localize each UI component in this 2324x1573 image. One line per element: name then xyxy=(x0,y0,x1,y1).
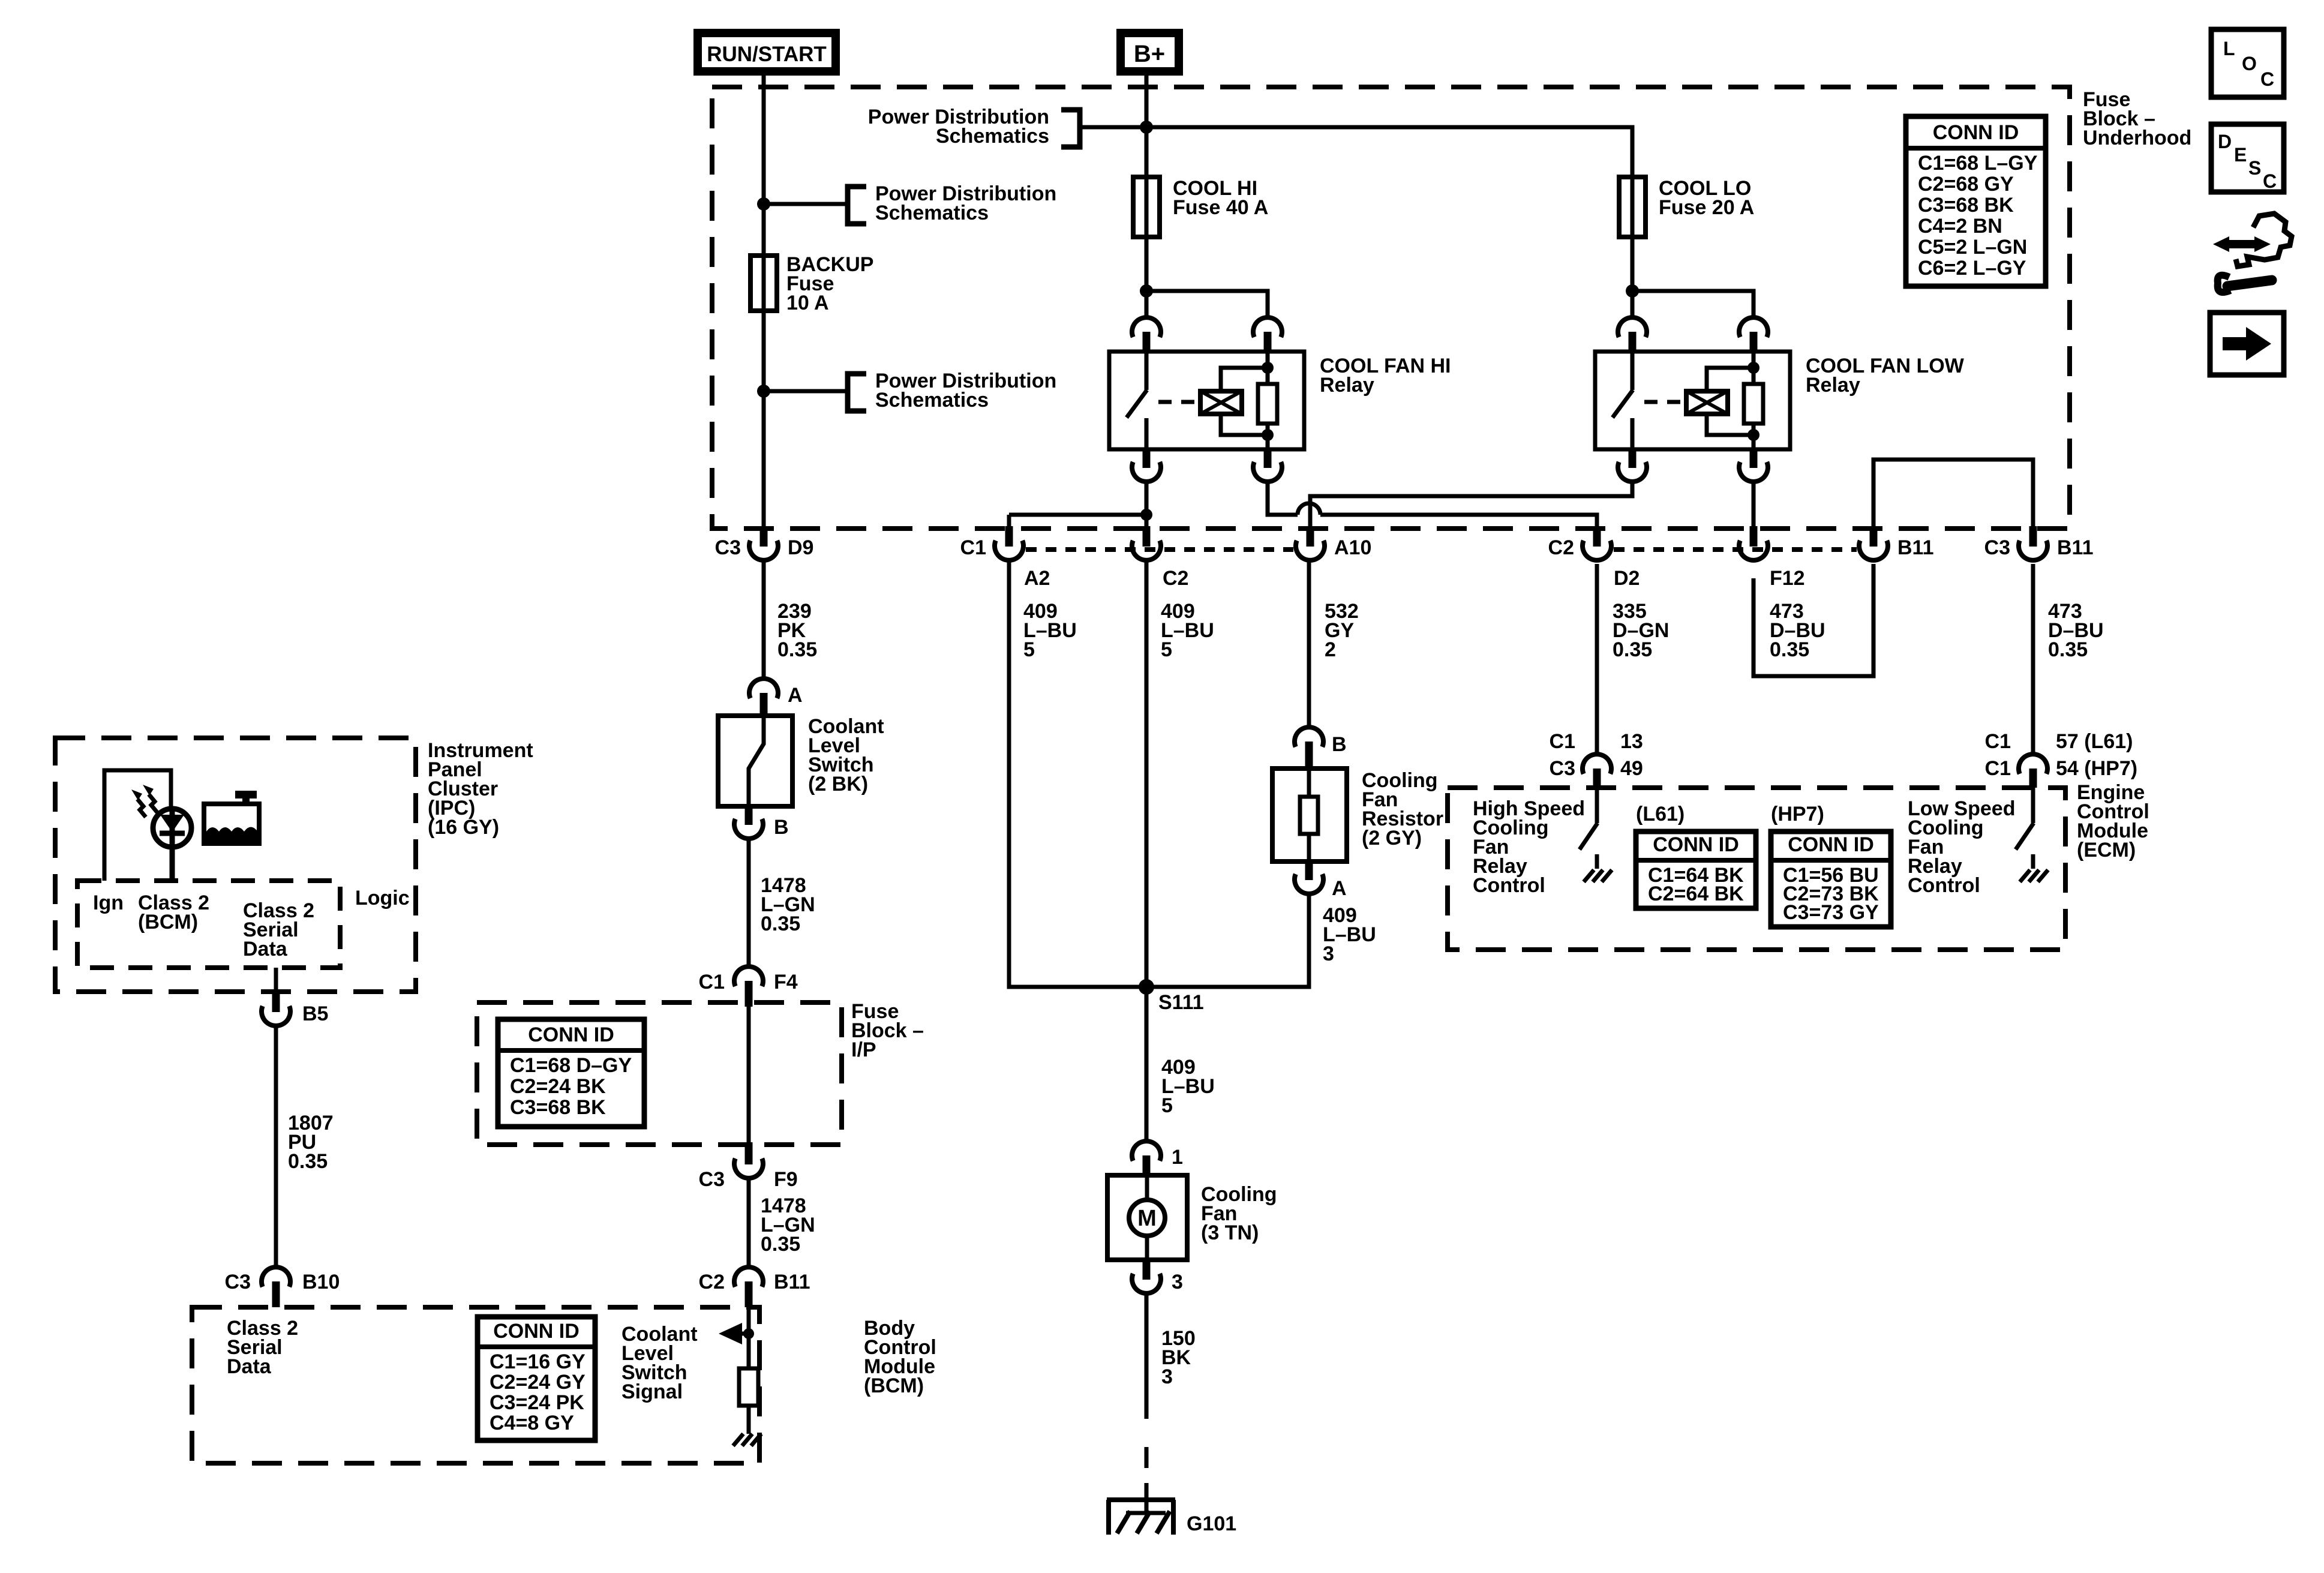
indicator light rays xyxy=(149,794,157,812)
relay box COOL FAN HI xyxy=(1109,352,1304,449)
svg-text:C2: C2 xyxy=(1548,536,1574,559)
icon vehicle outline xyxy=(2236,214,2292,266)
svg-text:0.35: 0.35 xyxy=(761,912,800,935)
svg-text:2: 2 xyxy=(1325,638,1336,661)
svg-text:Relay: Relay xyxy=(1806,374,1860,397)
wire S111 to fan xyxy=(1145,987,1149,1141)
svg-text:O: O xyxy=(2242,53,2257,74)
icon LOC box xyxy=(2211,29,2284,97)
signal arrow xyxy=(719,1323,742,1344)
svg-text:B11: B11 xyxy=(1897,536,1934,559)
svg-text:C: C xyxy=(2263,170,2277,192)
wire LOW relay output to A10 xyxy=(1310,482,1632,526)
relay COOL FAN LOW bottom pin connectors xyxy=(1629,449,1637,468)
svg-text:0.35: 0.35 xyxy=(288,1150,328,1173)
connector C3/D9 xyxy=(760,526,768,547)
svg-text:(2 BK): (2 BK) xyxy=(808,773,868,795)
fuse COOL LO 20A xyxy=(1631,177,1635,237)
connector C3/49 to ECM xyxy=(1583,754,1611,774)
svg-text:3: 3 xyxy=(1161,1365,1173,1388)
svg-text:CONN ID: CONN ID xyxy=(1933,121,2019,144)
svg-text:Fuse 20 A: Fuse 20 A xyxy=(1659,196,1754,219)
relay COOL FAN HI top pin connectors xyxy=(1132,317,1161,337)
off-page bracket power distribution 2 xyxy=(848,374,866,411)
wire to power distribution 2 xyxy=(764,389,847,394)
svg-text:13: 13 xyxy=(1620,730,1643,753)
ECM high speed driver switch xyxy=(1595,788,1599,823)
wire 239 PK to switch xyxy=(762,560,766,679)
off-page bracket power distribution top xyxy=(1061,110,1080,147)
wire F12 to B11 jumper xyxy=(1753,564,1873,676)
svg-text:Control: Control xyxy=(1908,874,1980,897)
connector A10 xyxy=(1307,526,1314,547)
relay COOL FAN LOW internal resistor xyxy=(1752,352,1756,449)
svg-text:C2=64 BK: C2=64 BK xyxy=(1648,882,1744,905)
svg-text:A10: A10 xyxy=(1334,536,1371,559)
dotted connector line C1-A10 xyxy=(1026,547,1293,552)
coolant level switch blade xyxy=(749,716,764,806)
svg-text:C: C xyxy=(2260,68,2274,90)
svg-text:57 (L61): 57 (L61) xyxy=(2056,730,2133,753)
connector B of cooling fan resistor xyxy=(1295,727,1323,747)
icon DESC box xyxy=(2211,124,2284,192)
fuse block underhood dashed box xyxy=(712,87,2070,529)
svg-text:(16 GY): (16 GY) xyxy=(428,816,499,839)
connector B5 xyxy=(272,992,280,1012)
svg-text:(HP7): (HP7) xyxy=(1771,803,1824,825)
svg-text:A: A xyxy=(788,684,803,707)
svg-text:C1: C1 xyxy=(1985,757,2011,780)
node C1 branch junction xyxy=(1140,509,1152,521)
svg-text:0.35: 0.35 xyxy=(761,1233,800,1256)
svg-text:B10: B10 xyxy=(302,1271,340,1293)
svg-text:5: 5 xyxy=(1023,638,1035,661)
wire HI relay coil to D2: right part xyxy=(1320,515,1597,526)
svg-text:5: 5 xyxy=(1161,1094,1173,1117)
BCM internal ground xyxy=(733,1434,743,1446)
connector C3/B11 to ECM xyxy=(2029,526,2037,547)
coolant level switch box xyxy=(718,716,792,806)
icon forward arrow box xyxy=(2210,313,2284,375)
wire below BACKUP fuse xyxy=(762,311,766,529)
svg-text:F4: F4 xyxy=(774,971,798,993)
relay COOL FAN LOW actuating dashes xyxy=(1644,400,1687,404)
svg-text:10 A: 10 A xyxy=(786,292,829,314)
relay COOL FAN HI internal resistor xyxy=(1266,352,1270,449)
CONN ID table ECM HP7 xyxy=(1771,831,1891,927)
svg-text:0.35: 0.35 xyxy=(777,638,817,661)
svg-text:Signal: Signal xyxy=(621,1380,683,1403)
wire 150 BK upper xyxy=(1145,1293,1149,1419)
relay box COOL FAN LOW xyxy=(1595,352,1790,449)
svg-text:C3=73 GY: C3=73 GY xyxy=(1783,901,1879,924)
relay COOL FAN LOW switch xyxy=(1631,352,1635,390)
connector C1/F4 xyxy=(734,966,763,986)
svg-text:54 (HP7): 54 (HP7) xyxy=(2056,757,2137,780)
svg-text:B+: B+ xyxy=(1134,41,1165,67)
svg-text:C4=2 BN: C4=2 BN xyxy=(1918,215,2002,238)
power terminal B+ xyxy=(1121,33,1179,71)
cooling fan motor box xyxy=(1107,1175,1187,1260)
wire 532 GY to resistor xyxy=(1307,562,1311,727)
engine control module dashed box xyxy=(1448,788,2065,950)
svg-text:F12: F12 xyxy=(1770,567,1805,590)
instrument panel cluster dashed box xyxy=(55,738,416,992)
svg-text:D9: D9 xyxy=(788,536,813,559)
connector C1/54 to ECM xyxy=(2019,754,2047,774)
wire HI relay coil to D2: left part xyxy=(1268,482,1298,515)
svg-text:C1=68 D–GY: C1=68 D–GY xyxy=(510,1054,632,1077)
svg-text:(3 TN): (3 TN) xyxy=(1201,1221,1259,1244)
CONN ID table fuse block I/P xyxy=(498,1019,644,1127)
svg-text:C3=24 PK: C3=24 PK xyxy=(490,1391,584,1414)
svg-text:5: 5 xyxy=(1161,638,1172,661)
wire B+ distribution to COOL LO xyxy=(1081,127,1632,177)
svg-text:S111: S111 xyxy=(1158,991,1204,1014)
svg-text:Schematics: Schematics xyxy=(875,202,989,224)
connector C2/B11 to BCM xyxy=(734,1267,763,1287)
svg-text:(L61): (L61) xyxy=(1636,803,1685,825)
svg-text:S: S xyxy=(2248,157,2261,179)
wire C1 branch to HI output xyxy=(1009,513,1146,517)
node signal pickoff xyxy=(743,1328,754,1339)
connector C1 A2 xyxy=(1005,526,1013,547)
svg-text:RUN/START: RUN/START xyxy=(707,43,827,66)
svg-text:3: 3 xyxy=(1323,942,1334,965)
svg-text:49: 49 xyxy=(1620,757,1643,780)
wire hop over A10 drop xyxy=(1298,503,1320,515)
svg-text:C1=16 GY: C1=16 GY xyxy=(490,1350,585,1373)
relay COOL FAN LOW coil xyxy=(1686,391,1728,414)
connector C3/F9 xyxy=(745,1142,753,1164)
wire LOW relay coil to F12 xyxy=(1752,482,1756,526)
splice S111 xyxy=(1139,979,1154,995)
wire HI relay output to C2 connector xyxy=(1145,482,1149,526)
motor symbol xyxy=(1129,1200,1165,1236)
svg-text:F9: F9 xyxy=(774,1168,798,1191)
svg-text:C3: C3 xyxy=(715,536,741,559)
node B+ junction xyxy=(1140,121,1153,134)
svg-text:E: E xyxy=(2234,144,2247,166)
wire C1/A2 drop to S111 xyxy=(1009,562,1146,987)
svg-text:C3: C3 xyxy=(1550,757,1575,780)
CONN ID table BCM xyxy=(478,1317,595,1440)
svg-text:C3=68 BK: C3=68 BK xyxy=(510,1096,606,1119)
svg-text:Relay: Relay xyxy=(1320,374,1374,397)
svg-text:C5=2 L–GN: C5=2 L–GN xyxy=(1918,236,2027,259)
cooling fan resistor element xyxy=(1307,769,1311,797)
svg-text:CONN ID: CONN ID xyxy=(528,1023,614,1046)
svg-text:Schematics: Schematics xyxy=(875,389,989,412)
svg-text:B11: B11 xyxy=(774,1271,810,1293)
relay COOL FAN LOW top pin connectors xyxy=(1618,317,1647,337)
wire 1478 L-GN lower xyxy=(747,1178,751,1267)
wire B11 to C3-B11 jumper xyxy=(1873,460,2033,526)
connector 3 of cooling fan xyxy=(1143,1260,1151,1280)
wire 1478 L-GN upper xyxy=(747,839,751,966)
svg-text:(2 GY): (2 GY) xyxy=(1362,827,1422,849)
ground G101 xyxy=(1107,1497,1175,1502)
telltale circuit outline xyxy=(104,770,171,881)
svg-text:Underhood: Underhood xyxy=(2083,127,2191,149)
svg-text:C2=68 GY: C2=68 GY xyxy=(1918,173,2014,196)
node under COOL LO fuse xyxy=(1626,284,1639,298)
svg-text:I/P: I/P xyxy=(851,1038,876,1061)
wire 335 D-GN to ECM xyxy=(1595,564,1599,754)
svg-text:C4=8 GY: C4=8 GY xyxy=(490,1412,574,1434)
svg-text:C1=68 L–GY: C1=68 L–GY xyxy=(1918,152,2038,175)
svg-text:C3=68 BK: C3=68 BK xyxy=(1918,194,2014,217)
connector B11 xyxy=(1870,526,1878,547)
svg-text:C1: C1 xyxy=(1985,730,2011,753)
relay COOL FAN HI switch xyxy=(1145,352,1149,390)
wire 1807 PU xyxy=(274,1026,278,1267)
svg-text:C1: C1 xyxy=(960,536,986,559)
ECM low speed driver switch xyxy=(2031,788,2035,823)
cooling fan resistor box xyxy=(1272,769,1347,861)
svg-text:(BCM): (BCM) xyxy=(138,911,198,933)
svg-text:M: M xyxy=(1137,1206,1157,1231)
svg-text:D2: D2 xyxy=(1614,567,1640,590)
svg-text:C1: C1 xyxy=(699,971,725,993)
connector F12 xyxy=(1750,526,1758,547)
connector B of coolant level switch xyxy=(745,806,753,825)
connector C3/B10 to BCM xyxy=(262,1267,290,1287)
CONN ID table ECM L61 xyxy=(1636,831,1756,908)
svg-text:C1: C1 xyxy=(1550,730,1575,753)
svg-text:Fuse 40 A: Fuse 40 A xyxy=(1173,196,1268,219)
wire 473 D-BU to ECM xyxy=(2031,564,2035,754)
svg-text:C3: C3 xyxy=(699,1168,725,1191)
connector C2/D2 xyxy=(1593,526,1601,547)
wire RUN/START feed xyxy=(762,71,766,256)
node RUN/START branch 1 xyxy=(757,197,770,211)
wire COOL LO fuse to relay pins xyxy=(1631,237,1635,317)
off-page bracket power distribution 1 xyxy=(848,187,866,224)
wire to power distribution 1 xyxy=(764,202,847,206)
dotted connector line D2-B11 xyxy=(1614,547,1857,552)
svg-text:G101: G101 xyxy=(1187,1512,1236,1535)
BCM pull resistor xyxy=(739,1368,758,1406)
svg-text:C6=2 L–GY: C6=2 L–GY xyxy=(1918,257,2026,280)
svg-text:C2: C2 xyxy=(1163,567,1188,590)
fuse COOL HI 40A xyxy=(1145,177,1149,237)
svg-text:B5: B5 xyxy=(302,1002,328,1025)
relay COOL FAN HI bottom pin connectors xyxy=(1143,449,1151,468)
svg-text:Schematics: Schematics xyxy=(936,125,1049,148)
connector A of cooling fan resistor xyxy=(1305,861,1313,880)
wire C2 to S111 xyxy=(1145,562,1149,987)
svg-text:3: 3 xyxy=(1172,1271,1183,1293)
svg-text:CONN ID: CONN ID xyxy=(493,1320,580,1343)
wire resistor to S111 xyxy=(1146,894,1309,987)
svg-text:(ECM): (ECM) xyxy=(2077,839,2136,861)
fuse block I/P dashed box xyxy=(477,1002,842,1145)
connector 1 of cooling fan xyxy=(1132,1141,1161,1161)
wire resistor to ground xyxy=(747,1406,751,1434)
connector C2 of harness xyxy=(1143,526,1151,547)
relay COOL FAN HI coil xyxy=(1200,391,1242,414)
svg-text:CONN ID: CONN ID xyxy=(1653,833,1739,856)
coolant tank icon xyxy=(204,804,259,843)
wire COOL HI fuse to relay pins xyxy=(1145,237,1149,317)
svg-text:B: B xyxy=(774,816,789,839)
wire 150 BK dashed to ground xyxy=(1145,1447,1149,1468)
svg-text:Logic: Logic xyxy=(355,887,410,909)
node RUN/START branch 2 xyxy=(757,385,770,398)
svg-text:Data: Data xyxy=(227,1355,272,1378)
svg-text:1: 1 xyxy=(1172,1146,1183,1169)
svg-text:C3: C3 xyxy=(225,1271,251,1293)
body control module dashed box xyxy=(192,1307,759,1463)
svg-text:0.35: 0.35 xyxy=(1770,638,1809,661)
svg-text:CONN ID: CONN ID xyxy=(1788,833,1874,856)
svg-text:C2=24 GY: C2=24 GY xyxy=(490,1371,585,1394)
svg-text:L: L xyxy=(2223,38,2235,59)
icon wrench xyxy=(2218,275,2230,292)
svg-text:B: B xyxy=(1332,733,1347,756)
svg-text:0.35: 0.35 xyxy=(2048,638,2088,661)
svg-text:C3: C3 xyxy=(1984,536,2010,559)
svg-text:(BCM): (BCM) xyxy=(864,1374,924,1397)
svg-text:D: D xyxy=(2218,131,2232,152)
svg-text:Control: Control xyxy=(1473,874,1545,897)
svg-text:A: A xyxy=(1332,877,1347,900)
svg-text:Data: Data xyxy=(243,938,288,960)
low coolant indicator LED xyxy=(153,809,191,847)
svg-text:A2: A2 xyxy=(1024,567,1050,590)
fuse BACKUP 10A xyxy=(762,256,766,311)
wire B+ feed xyxy=(1145,71,1149,177)
svg-text:0.35: 0.35 xyxy=(1613,638,1652,661)
relay COOL FAN HI actuating dashes xyxy=(1158,400,1201,404)
svg-text:C2: C2 xyxy=(699,1271,725,1293)
svg-text:C2=24 BK: C2=24 BK xyxy=(510,1075,606,1098)
svg-text:B11: B11 xyxy=(2057,536,2094,559)
wire C1 connector drop xyxy=(1007,515,1011,526)
wire logic to B5 xyxy=(274,968,278,992)
wire through I/P fuse block xyxy=(747,1007,751,1142)
node under COOL HI fuse xyxy=(1140,284,1153,298)
connector A of coolant level switch xyxy=(749,679,778,698)
wire B11 into BCM xyxy=(747,1307,751,1368)
svg-text:Ign: Ign xyxy=(93,891,124,914)
CONN ID table fuse block underhood xyxy=(1906,116,2046,286)
icon vehicle double arrow xyxy=(2227,240,2257,248)
logic dashed box xyxy=(77,881,340,968)
power terminal RUN/START xyxy=(698,33,836,71)
